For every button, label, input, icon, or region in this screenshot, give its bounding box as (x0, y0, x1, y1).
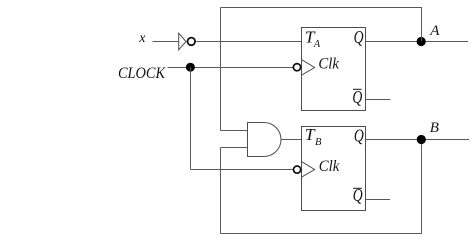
svg-text:B: B (430, 120, 439, 136)
node x (138, 31, 146, 46)
svg-text:CLOCK: CLOCK (118, 65, 166, 82)
svg-text:B: B (315, 137, 322, 148)
flip-flop U2 T_B box (302, 127, 366, 211)
junction B (417, 135, 426, 144)
wire inverter to T_A input (196, 41, 301, 43)
wire CLOCK to T_A clk (168, 67, 294, 69)
pin label Qbar of U1 (352, 87, 362, 107)
wire T_B Qbar output (366, 199, 391, 201)
junction A (417, 37, 426, 46)
svg-text:A: A (313, 39, 321, 50)
flip-flop U1 T_A box (302, 28, 366, 111)
node A label (429, 23, 440, 39)
wire AND input top (221, 130, 248, 132)
wire A feedback top (221, 7, 422, 9)
pin label Q of U1 (354, 27, 364, 47)
svg-text:Q: Q (354, 125, 364, 145)
wire B feedback down left (220, 148, 222, 234)
svg-text:Clk: Clk (318, 55, 339, 72)
wire AND input bottom (221, 147, 248, 149)
wire T_A Qbar output (366, 99, 391, 101)
svg-text:x: x (138, 31, 146, 46)
svg-text:Q: Q (354, 27, 364, 47)
wire B feedback up right (421, 140, 423, 234)
node B label (430, 120, 439, 136)
pin label T_B (305, 125, 322, 148)
svg-text:A: A (429, 23, 440, 39)
pin label Qbar of U2 (353, 185, 363, 205)
pin label T_A (305, 28, 321, 51)
svg-text:Clk: Clk (319, 158, 340, 175)
wire T_B Q output to B (366, 139, 470, 141)
junction CLOCK (186, 63, 195, 72)
CLOCK label (118, 65, 166, 82)
flip-flop U2 clk bubble (294, 166, 301, 173)
wire A feedback down left (220, 8, 222, 131)
inverter (179, 33, 195, 50)
pin label Q of U2 (354, 125, 364, 145)
wire x to inverter (153, 41, 179, 43)
flip-flop U1 clk edge triangle (302, 60, 315, 76)
wire T_A Q output to A (366, 41, 469, 43)
pin label Clk of U1 (318, 55, 339, 72)
wire CLOCK to T_B clk (191, 169, 295, 171)
svg-text:Q: Q (352, 87, 362, 107)
wire AND output to T_B input (281, 139, 302, 141)
and gate G1 (248, 123, 281, 157)
wire CLOCK down leg (190, 68, 192, 170)
flip-flop U1 clk bubble (293, 64, 300, 71)
pin label Clk of U2 (319, 158, 340, 175)
wire B feedback bottom (221, 233, 422, 235)
flip-flop U2 clk edge triangle (302, 162, 315, 178)
wire A feedback up (421, 7, 423, 42)
